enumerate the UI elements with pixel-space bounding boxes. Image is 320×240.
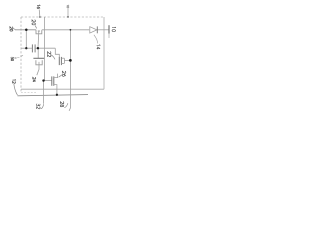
wire after diode to terminal: [98, 29, 109, 31]
lead wire to top pin 16: [38, 10, 41, 18]
label 10 right of terminal: [112, 27, 116, 32]
terminal electrode bar 10: [108, 25, 110, 34]
label 16 top lead: [37, 5, 40, 9]
node dot rail-x70.4: [70, 29, 72, 31]
transistor Q3 source arm: [61, 62, 64, 64]
transistor Q3 arm join: [63, 58, 65, 63]
transistor Q4 source arm to ground bus: [54, 85, 57, 95]
label 18 top lead: [67, 5, 69, 8]
reference numeral labels (tiny rotated digit paths): [10, 5, 116, 109]
wire gate of transistor Q4: [44, 80, 52, 82]
wire VDD rail middle segment: [42, 29, 89, 31]
transistor Q1 gate tap wire: [37, 31, 40, 48]
label 12 box lower-left: [13, 79, 16, 83]
transistor Q2 tap wire with leader to label 24: [37, 62, 39, 75]
wire vertical x44.6 from box top to gate node: [44, 17, 46, 81]
diode D1 cathode bar: [96, 26, 98, 33]
label 14 near diode: [97, 44, 101, 49]
leader from label 20 to rail: [13, 28, 15, 30]
node dot lead18-box: [67, 16, 69, 18]
transistor Q3 channel bar: [60, 57, 62, 65]
wire node row y48 right: [35, 47, 55, 49]
bottom loop wire: [21, 88, 104, 90]
label 32 bottom left: [37, 104, 41, 109]
wire vertical from rail to node row: [25, 30, 27, 48]
node dot tap-y48: [37, 47, 39, 49]
leader bottom left to lower vertical: [41, 104, 44, 109]
transistor Q1 U-channel: [36, 30, 42, 34]
capacitor C1 plate left: [31, 44, 33, 52]
transistor Q3 gate bar: [58, 57, 60, 65]
device boundary box left edge: [20, 17, 22, 93]
label 26 near Q4 drain: [62, 71, 66, 76]
diode D1 triangle: [90, 27, 97, 33]
leader label 12 to ground bus: [14, 84, 18, 96]
capacitor C1 plate right: [34, 44, 36, 52]
transistor Q4 channel bar: [53, 76, 55, 85]
transistor Q1 gate plate head: [38, 30, 40, 32]
node dot Q3 output: [69, 59, 72, 62]
leader to Q1: [35, 25, 37, 28]
leader to diode: [94, 35, 98, 44]
wire vertical lower to bottom label: [43, 81, 45, 104]
label 20 near Q1: [32, 20, 36, 25]
wire feeder from node row down to Q2 plate: [37, 48, 39, 58]
label 30 input left: [11, 57, 14, 61]
label 28 bottom middle near x70.4: [60, 102, 64, 107]
input lead marks at left edge: [15, 57, 17, 59]
transistor Q4 gate bar: [51, 76, 53, 85]
box bottom edge (dashed): [21, 92, 37, 94]
node dot source-bus: [56, 94, 58, 96]
leader bottom middle to x70.4: [64, 103, 68, 107]
wire Q3 to node x70.4: [64, 60, 70, 62]
transistor Q4 drain arm and stub: [54, 74, 58, 78]
device boundary box top edge: [21, 16, 104, 18]
label 20 at VDD rail left end: [10, 27, 13, 31]
node dot rail-x26: [25, 29, 28, 32]
node dot x26-y48: [25, 47, 27, 49]
node dot lead16-box: [39, 16, 41, 18]
wire gate path of transistor Q3: [55, 48, 59, 57]
transistor Q2 gate plate: [33, 57, 44, 59]
label 22 near capacitor leader: [48, 52, 51, 57]
wire long vertical x70.4: [69, 30, 70, 111]
device boundary box right edge / wire: [103, 17, 105, 89]
transistor Q3 drain arm: [61, 57, 64, 59]
lead wire to top pin 18: [67, 6, 69, 18]
ground bus wire: [18, 95, 89, 96]
wire VDD rail left segment: [15, 29, 36, 31]
junction dots: [25, 16, 72, 96]
leader lines for labels: [13, 25, 98, 108]
terminal bar faint tail: [108, 34, 110, 38]
label 24 left of Q2 tap: [33, 77, 36, 82]
leader to Q3 gate: [51, 55, 55, 60]
node dot gate wire: [42, 79, 44, 81]
wire node row y48 left: [21, 47, 32, 49]
leader to Q4 drain stub: [59, 75, 62, 77]
transistor Q2 U-channel: [36, 60, 42, 65]
